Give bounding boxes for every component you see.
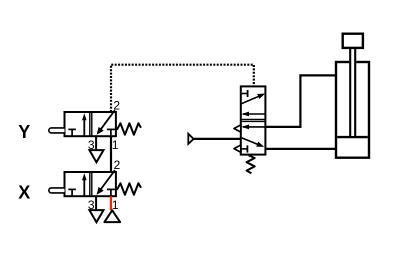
cylinder body — [336, 62, 369, 158]
valve Y right box blocked port 1 T — [107, 129, 115, 135]
5/2 valve exhaust chevron port 5 — [234, 125, 241, 132]
5/2 valve top box horizontal flow path — [241, 112, 265, 117]
cylinder piston rod — [349, 48, 356, 136]
svg-text:2: 2 — [113, 98, 120, 112]
5/2 valve top box diagonal flow path — [241, 94, 265, 104]
load plate on piston rod — [343, 34, 363, 48]
valve X left box blocked port T — [68, 189, 76, 195]
wire 5/2 port4 to cylinder top port — [265, 75, 336, 127]
svg-text:2: 2 — [114, 158, 121, 172]
svg-text:1: 1 — [112, 138, 119, 152]
valve Y port 3 exhaust stub — [95, 136, 97, 149]
valve X body (3/2-way pushbutton valve) — [65, 172, 116, 196]
5/2 pilot valve body — [241, 86, 266, 154]
5/2 valve bottom box horizontal flow path — [241, 125, 265, 130]
5/2 valve bottom box blocked T — [242, 145, 248, 152]
valve Y left box flow arrow — [82, 113, 87, 135]
supply triangle (air source) at 5/2 valve — [188, 134, 193, 144]
svg-text:X: X — [18, 182, 30, 202]
valve X right box blocked port 1 T — [107, 189, 115, 195]
cylinder piston — [337, 136, 368, 138]
5/2 valve bottom box diagonal flow path — [242, 138, 264, 147]
valve Y left box blocked port T — [68, 129, 76, 135]
valve X supply triangle (air source) — [104, 210, 120, 222]
valve X port 1 pressurized wire (red) — [110, 196, 112, 210]
valve Y pushbutton actuator — [49, 128, 65, 133]
pilot signal line Y port2 to 5/2 valve (dotted) — [111, 65, 254, 112]
wire 5/2 port2 to cylinder bottom port — [265, 148, 336, 150]
valve X return spring — [117, 183, 141, 194]
valve Y exhaust triangle — [89, 150, 103, 162]
valve X port 3 exhaust stub — [95, 196, 97, 209]
wire Y port1 to X port2 — [110, 136, 112, 172]
svg-text:Y: Y — [18, 122, 30, 142]
valve X exhaust triangle — [89, 210, 103, 222]
5/2 valve exhaust chevron port 3 — [234, 145, 241, 152]
valve X left box flow arrow — [82, 173, 87, 195]
valve X pushbutton actuator — [49, 188, 65, 193]
valve Y return spring — [117, 123, 141, 134]
5/2 valve return spring — [247, 155, 255, 173]
valve Y body (3/2-way pushbutton valve) — [65, 112, 116, 136]
valve Y right box exhaust path 2 to 3 — [97, 110, 115, 135]
supply line to 5/2 valve port 1 — [194, 138, 241, 140]
5/2 valve top box blocked T — [242, 90, 248, 97]
valve X right box exhaust path 2 to 3 — [97, 170, 115, 195]
